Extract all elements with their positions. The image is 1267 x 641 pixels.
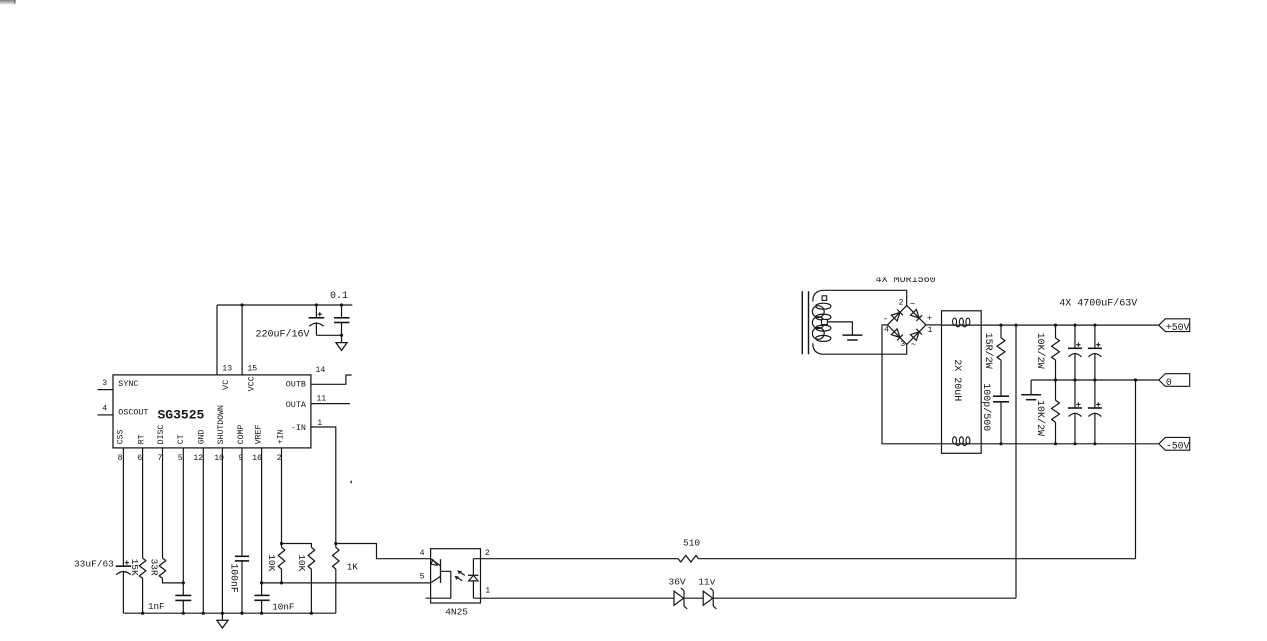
svg-text:220uF/16V: 220uF/16V <box>255 328 309 340</box>
junction 220uF top <box>315 303 318 306</box>
svg-text:11v: 11v <box>698 577 715 588</box>
svg-text:14: 14 <box>316 366 326 375</box>
resistor 10K/2W upper <box>1055 325 1057 338</box>
zener diode 11v <box>703 591 713 605</box>
svg-text:OUTB: OUTB <box>286 379 306 389</box>
wire COMP pin9 <box>241 448 243 556</box>
wire opto pin1 to zeners <box>473 597 674 599</box>
wire ground rail <box>123 612 335 614</box>
stray mark <box>350 481 352 484</box>
junction 0V riser <box>1134 378 1137 381</box>
svg-text:3: 3 <box>900 340 905 349</box>
svg-text:1K: 1K <box>347 562 359 573</box>
wire CSS pin8 <box>122 448 124 566</box>
wire 33uF bottom <box>122 571 124 613</box>
opto LED cathode bar <box>468 574 478 576</box>
svg-text:VC: VC <box>221 380 231 390</box>
capacitor 220uF/16V lead <box>315 305 317 318</box>
junction ground rail <box>310 612 313 615</box>
wire transformer top to bridge <box>823 290 907 305</box>
zener diode 36V <box>674 591 684 605</box>
wire 510 to 0V riser <box>699 558 1136 560</box>
wire VC/VCC supply rail <box>217 304 352 306</box>
wire bridge plus to choke <box>926 324 942 326</box>
opto LED top lead <box>472 559 474 576</box>
svg-text:4X 4700uF/63V: 4X 4700uF/63V <box>1059 298 1137 310</box>
resistor 1K <box>335 544 337 548</box>
wire CT pin5 <box>182 448 184 596</box>
capacitor 220uF lower lead <box>315 322 317 335</box>
wire cap commons <box>316 334 341 336</box>
capacitor 33uF/63 <box>116 565 132 567</box>
transformer polarity mark <box>822 296 827 301</box>
svg-text:10K/2W: 10K/2W <box>1034 333 1046 369</box>
phototransistor base stub <box>426 571 451 598</box>
wire 0V rail <box>1031 379 1159 381</box>
svg-text:33R: 33R <box>149 559 160 576</box>
earth ground 0V <box>1021 394 1041 396</box>
capacitor 220uF/16V <box>309 317 325 319</box>
svg-text:1: 1 <box>928 326 933 335</box>
wire VREF net to opto pin5 <box>262 582 431 584</box>
svg-text:16: 16 <box>252 454 262 463</box>
junction 33R/CT <box>182 581 185 584</box>
optocoupler U2 4N25 body <box>431 549 481 603</box>
svg-text:5: 5 <box>420 572 425 581</box>
svg-text:-IN: -IN <box>291 423 306 433</box>
junction ground rail <box>221 612 224 615</box>
IC U1 SG3525 body <box>113 375 311 448</box>
svg-text:CSS: CSS <box>117 429 126 444</box>
opto LED bottom lead <box>472 581 474 598</box>
wire transformer bottom to bridge <box>823 344 907 354</box>
bridge rectifier outline <box>888 306 926 345</box>
supply flag 0 <box>1159 374 1190 387</box>
transformer centre tap mark <box>822 319 828 324</box>
junction 100p bottom <box>999 442 1002 445</box>
wire centre tap <box>827 322 852 335</box>
wire +50V rail <box>981 324 1159 326</box>
svg-text:3: 3 <box>102 379 107 388</box>
capacitor 1nF plates <box>175 594 191 596</box>
svg-text:12: 12 <box>193 454 203 463</box>
svg-text:7: 7 <box>157 454 162 463</box>
svg-text:510: 510 <box>683 538 700 549</box>
resistor 10K second <box>308 547 315 569</box>
svg-text:1: 1 <box>485 587 490 596</box>
capacitor 4700uF lower x1094.9 <box>1094 380 1096 408</box>
svg-text:+: + <box>927 314 932 324</box>
ground GND1 stub <box>341 335 343 342</box>
svg-text:10nF: 10nF <box>272 602 294 613</box>
wire opto pin2 to 510 <box>473 558 678 560</box>
junction 0.1uF top <box>340 303 343 306</box>
wire DISC pin7 <box>162 448 164 558</box>
svg-text:VCC: VCC <box>247 376 257 391</box>
junction 15R top <box>999 324 1002 327</box>
capacitor 4700uF upper x1094.9 <box>1094 325 1096 348</box>
phototransistor base bar <box>440 559 442 583</box>
wire riser to 0 rail <box>1135 380 1137 559</box>
svg-text:5: 5 <box>178 454 183 463</box>
bridge diode D4 (bottom-right) <box>911 332 920 341</box>
svg-text:OUTA: OUTA <box>286 400 307 410</box>
junction cap rails <box>1093 324 1096 327</box>
junction ground rail <box>240 612 243 615</box>
wire +IN to 10K2 <box>282 544 312 548</box>
wire OUTB pin14 <box>311 375 352 384</box>
resistor 33R <box>159 558 166 578</box>
svg-text:2X 20uH: 2X 20uH <box>951 359 962 401</box>
wire 10nF bottom <box>261 600 263 613</box>
svg-text:DISC: DISC <box>157 425 166 445</box>
svg-text:8: 8 <box>118 454 123 463</box>
svg-text:13: 13 <box>222 364 232 373</box>
svg-text:6: 6 <box>137 454 142 463</box>
wire bridge minus to -50 rail <box>882 325 942 444</box>
junction ground rail <box>202 612 205 615</box>
supply flag -50V <box>1159 437 1190 450</box>
earth ground centre tap <box>843 334 863 336</box>
svg-text:SHUTDOWN: SHUTDOWN <box>217 405 226 444</box>
junction riser top <box>1014 324 1017 327</box>
junction gnd stub <box>340 334 343 337</box>
svg-text:33uF/63: 33uF/63 <box>74 559 114 570</box>
phototransistor collector <box>431 576 441 583</box>
screen artifact (browser fragment) <box>0 0 16 5</box>
choke L1 top winding <box>942 324 982 326</box>
junction 10K1/VREF net <box>280 581 283 584</box>
junction ground rail <box>260 612 263 615</box>
resistor 15R/2W <box>1000 325 1002 338</box>
svg-text:0: 0 <box>1166 377 1172 388</box>
wire 1nF bottom <box>182 600 184 613</box>
bridge diode D2 (top-right) <box>911 310 920 319</box>
wire -IN node to opto pin4 <box>336 544 431 559</box>
svg-text:10K: 10K <box>266 554 277 571</box>
earth ground 0V stub <box>1030 380 1032 395</box>
choke L1 bottom winding <box>942 443 982 445</box>
svg-text:15R/2W: 15R/2W <box>982 333 994 369</box>
svg-text:4: 4 <box>102 405 107 414</box>
svg-text:10K/2W: 10K/2W <box>1034 400 1046 436</box>
svg-text:+50V: +50V <box>1166 322 1190 333</box>
wire 10K2 bottom <box>310 569 312 613</box>
wire between zeners <box>684 597 703 599</box>
svg-text:CT: CT <box>177 434 186 444</box>
svg-text:GND: GND <box>197 429 206 444</box>
svg-text:0.1: 0.1 <box>330 291 348 302</box>
junction 10K rails <box>1054 324 1057 327</box>
wire 1K bottom <box>335 569 337 613</box>
svg-text:VREF: VREF <box>255 425 264 445</box>
svg-text:COMP: COMP <box>237 425 246 445</box>
choke L1 2X 20uH body <box>942 311 982 454</box>
bridge diode D3 (left-bottom) <box>891 329 900 338</box>
label 4X MUR1560 (clipped) <box>876 275 936 286</box>
svg-text:15K: 15K <box>129 559 140 576</box>
wire 33R to CT node <box>163 578 184 583</box>
wire 15K bottom <box>142 578 144 613</box>
capacitor C 0.1 leads <box>341 305 343 318</box>
wire 100nF bottom <box>241 561 243 613</box>
ground GND2 <box>217 620 228 628</box>
junction -IN node <box>334 542 337 545</box>
wire VREF pin16 <box>261 448 263 596</box>
transformer secondary winding <box>813 290 823 301</box>
phototransistor emitter <box>431 559 441 566</box>
capacitor 100p/500 plates <box>993 395 1009 397</box>
capacitor 100nF plates <box>235 555 249 557</box>
opto light arrow 2 <box>457 577 462 581</box>
resistor 10K first <box>281 544 283 548</box>
ground GND1 <box>336 343 347 351</box>
svg-text:1nF: 1nF <box>148 601 165 612</box>
wire RT pin6 <box>142 448 144 558</box>
opto light arrow 1 <box>460 572 465 576</box>
capacitor C 0.1 plates <box>334 317 350 319</box>
resistor 15K <box>139 558 146 578</box>
svg-text:2: 2 <box>899 298 904 307</box>
svg-text:10K: 10K <box>296 554 307 571</box>
svg-text:4N25: 4N25 <box>445 606 468 617</box>
svg-text:15: 15 <box>247 364 257 373</box>
svg-text:SYNC: SYNC <box>118 379 138 389</box>
opto LED triangle <box>469 575 478 581</box>
phototransistor emitter arrow <box>431 560 437 566</box>
resistor 510 <box>678 555 698 562</box>
svg-text:RT: RT <box>137 434 146 444</box>
wire +IN pin2 <box>281 448 283 544</box>
svg-text:100nF: 100nF <box>229 563 240 593</box>
wire SHUTDOWN pin10 <box>221 448 223 613</box>
svg-text:~: ~ <box>911 340 916 350</box>
resistor 10K/2W lower <box>1055 380 1057 400</box>
junction +IN node <box>280 542 283 545</box>
svg-text:100p/500: 100p/500 <box>980 383 992 431</box>
wire OUTA pin11 <box>311 403 350 405</box>
wire riser to +50 rail <box>1015 325 1017 598</box>
svg-text:2: 2 <box>485 549 490 558</box>
junction VREF net <box>260 581 263 584</box>
U1 pin 15 VCC wire <box>241 305 243 375</box>
wire -50V rail <box>981 443 1159 445</box>
wire 100p bottom <box>1000 402 1002 444</box>
junction cap rails <box>1073 324 1076 327</box>
wire zeners to riser <box>713 597 1016 599</box>
U1 pin 3 SYNC wire <box>98 389 114 391</box>
svg-text:36V: 36V <box>669 577 686 588</box>
junction ground rail <box>182 612 185 615</box>
svg-text:-: - <box>883 315 888 325</box>
svg-text:+IN: +IN <box>277 429 286 444</box>
U1 pin 13 VC wire <box>216 305 218 375</box>
svg-text:4: 4 <box>884 326 889 335</box>
wire 10K1 bottom to vref net <box>281 569 283 583</box>
bridge diode D1 (left-top) <box>891 312 900 321</box>
capacitor 10nF plates <box>254 594 269 596</box>
svg-text:OSCOUT: OSCOUT <box>118 408 148 418</box>
junction ground rail <box>141 612 144 615</box>
wire GND pin12 <box>202 448 204 613</box>
capacitor 4700uF lower x1075.0 <box>1074 380 1076 408</box>
ground GND2 stub <box>221 613 223 620</box>
svg-text:4: 4 <box>420 549 425 558</box>
svg-text:SG3525: SG3525 <box>158 408 205 423</box>
transformer core <box>801 291 803 354</box>
supply flag +50V <box>1159 319 1190 332</box>
svg-text:11: 11 <box>316 395 326 404</box>
svg-text:~: ~ <box>910 300 915 310</box>
wire -IN pin1 to feedback node <box>311 427 336 544</box>
svg-text:-50V: -50V <box>1166 441 1190 452</box>
capacitor 4700uF upper x1075.0 <box>1074 325 1076 348</box>
U1 pin 4 OSCOUT wire <box>98 414 114 416</box>
junction pin15/top rail <box>241 303 244 306</box>
